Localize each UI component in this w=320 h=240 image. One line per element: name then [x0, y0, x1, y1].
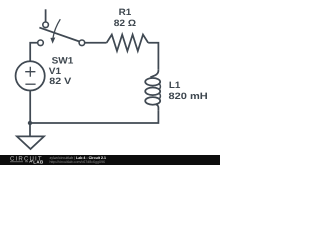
label V1 — [49, 66, 61, 76]
switch SW1 blade — [39, 28, 79, 42]
switch SW1 left terminal — [38, 40, 44, 46]
svg-text:820 mH: 820 mH — [169, 91, 209, 101]
resistor R1 — [107, 35, 149, 51]
label SW1 — [52, 56, 74, 66]
svg-text:V1: V1 — [49, 66, 61, 76]
svg-text:LAB: LAB — [33, 160, 44, 165]
svg-text:82 Ω: 82 Ω — [114, 18, 136, 28]
node: ground junction — [28, 121, 32, 125]
svg-text:zylan/circuitlab | Lab 4 - Cir: zylan/circuitlab | Lab 4 - Circuit 2.1 — [50, 156, 106, 160]
wire: SW1 right terminal to R1 — [85, 42, 107, 44]
label R1 — [119, 7, 132, 17]
value 82 Ω — [114, 18, 136, 28]
svg-text:R1: R1 — [119, 7, 132, 17]
wire: SW1 left terminal to V1 plus — [30, 43, 37, 62]
label L1 — [169, 80, 180, 90]
wire: L1 bottom to ground rail — [30, 110, 158, 123]
wire: open throw stub above SW1 — [45, 9, 47, 21]
switch SW1 right terminal — [79, 40, 85, 46]
wire: R1 to top-right corner and down to L1 — [148, 43, 158, 70]
svg-text:82 V: 82 V — [49, 76, 72, 86]
ground — [17, 123, 44, 149]
svg-text:http://circuitlab.com/c67d8c6g: http://circuitlab.com/c67d8c6gg096 — [50, 160, 106, 164]
svg-text:L1: L1 — [169, 80, 180, 90]
wire: V1 minus to ground junction — [29, 91, 31, 124]
switch SW1 top throw terminal — [43, 22, 49, 28]
value 82 V — [49, 76, 72, 86]
voltage source V1 — [16, 61, 45, 90]
value 820 mH — [169, 91, 209, 101]
watermark bar — [0, 155, 220, 165]
svg-text:SW1: SW1 — [52, 56, 74, 66]
switch SW1 actuation arrow — [50, 19, 60, 44]
inductor L1 — [145, 70, 160, 111]
